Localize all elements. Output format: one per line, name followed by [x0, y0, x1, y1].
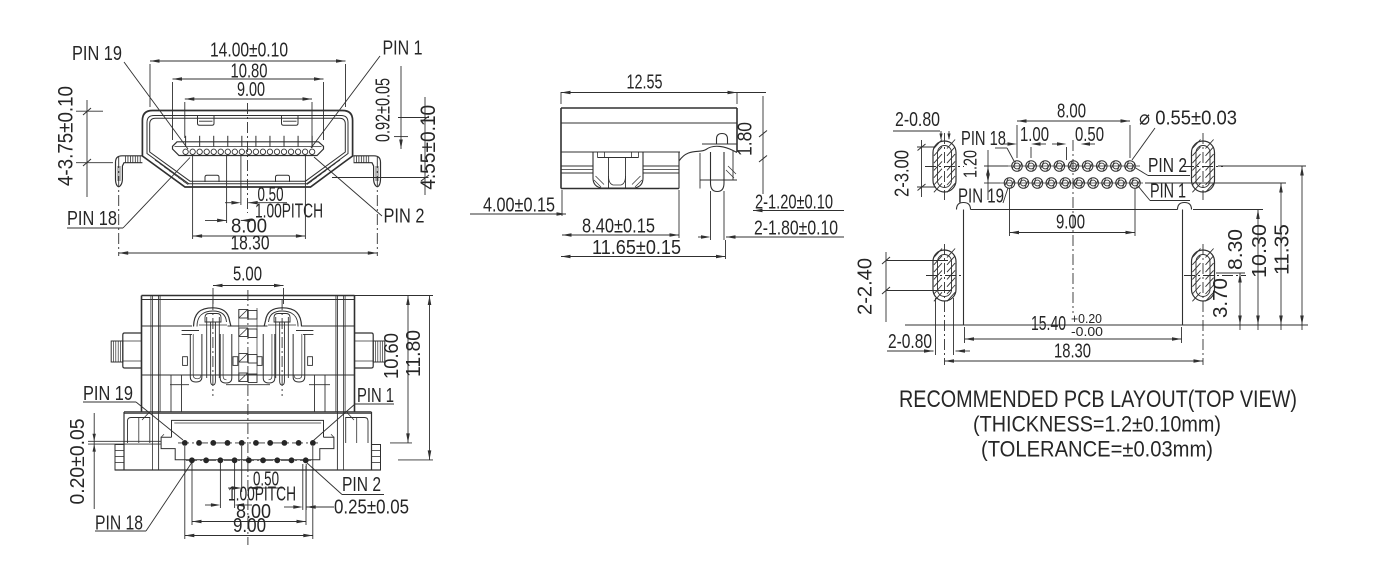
svg-text:12.55: 12.55: [627, 72, 663, 94]
svg-text:2-0.80: 2-0.80: [895, 109, 940, 131]
svg-text:10.60: 10.60: [381, 333, 403, 379]
side view: top latch nub: [717, 134, 728, 145]
svg-text:18.30: 18.30: [1054, 341, 1091, 363]
svg-text:3.70: 3.70: [1210, 278, 1232, 318]
front view: contact tongue: [173, 142, 324, 156]
svg-text:(THICKNESS=1.2±0.10mm): (THICKNESS=1.2±0.10mm): [973, 412, 1221, 437]
bottom view: left EMI tab: [111, 333, 141, 368]
svg-text:0.25±0.05: 0.25±0.05: [334, 497, 409, 519]
svg-text:PIN 19: PIN 19: [958, 186, 1004, 208]
pcb layout: pad row pins 19..1 (10 pads): [1000, 178, 1143, 189]
svg-text:2-1.80±0.10: 2-1.80±0.10: [754, 218, 838, 240]
svg-text:4-3.75±0.10: 4-3.75±0.10: [55, 86, 78, 186]
bottom view: main body outline: [142, 296, 355, 471]
svg-text:PIN 1: PIN 1: [1150, 181, 1186, 203]
front view: upper contact tick marks on tongue: [186, 136, 313, 147]
svg-text:18.30: 18.30: [231, 233, 270, 255]
svg-text:RECOMMENDED PCB LAYOUT(TOP VIE: RECOMMENDED PCB LAYOUT(TOP VIEW): [899, 386, 1297, 413]
svg-text:PIN 2: PIN 2: [1148, 155, 1187, 177]
pcb layout: slot hole upper-right: [1192, 140, 1215, 193]
svg-text:8.40±0.15: 8.40±0.15: [582, 216, 655, 238]
svg-text:PIN 2: PIN 2: [384, 206, 425, 228]
bottom view: flange solder feet ladders: [115, 445, 381, 471]
svg-text:4.00±0.15: 4.00±0.15: [483, 195, 555, 217]
svg-text:14.00±0.10: 14.00±0.10: [210, 40, 288, 62]
svg-text:2-2.40: 2-2.40: [855, 258, 877, 315]
svg-text:(TOLERANCE=±0.03mm): (TOLERANCE=±0.03mm): [981, 437, 1213, 462]
front view: shell wall hatching on lower-left curve: [155, 160, 340, 185]
svg-text:8.30: 8.30: [1225, 229, 1247, 270]
bottom view: right latch spring assembly (mirror): [257, 308, 312, 385]
svg-text:0.20±0.05: 0.20±0.05: [67, 419, 89, 505]
svg-text:10.30: 10.30: [1249, 224, 1271, 278]
svg-text:PIN 18: PIN 18: [961, 128, 1006, 150]
svg-text:9.00: 9.00: [237, 79, 265, 101]
front view: top dimple tabs: [198, 116, 215, 125]
svg-text:PIN 18: PIN 18: [67, 208, 117, 230]
pcb layout: slot hole lower-right: [1192, 249, 1215, 302]
bottom view: flange corner boss right: [346, 418, 368, 444]
side view: SMT foot block: [593, 152, 643, 188]
pcb layout: footprint outline with corner ears: [905, 203, 1308, 326]
svg-text:0.92±0.05: 0.92±0.05: [373, 78, 395, 142]
front view: left mounting leg: [116, 156, 143, 187]
pcb layout: slot hole lower-left: [933, 249, 956, 302]
bottom view: left latch centerline: [212, 299, 214, 396]
svg-text:1.00: 1.00: [1020, 124, 1049, 146]
svg-text:11.80: 11.80: [403, 330, 425, 377]
svg-text:11.35: 11.35: [1272, 224, 1294, 275]
svg-text:1.80: 1.80: [735, 122, 757, 156]
svg-text:2-3.00: 2-3.00: [892, 150, 914, 197]
front view: center line: [247, 103, 249, 213]
bottom view: center interlock zigzag tabs: [239, 308, 257, 383]
bottom view: pin row 1 (pins 19..1) centerline: [178, 442, 318, 444]
bottom view: flange corner boss left: [128, 418, 150, 444]
front view: right mounting leg: [354, 156, 381, 187]
pcb layout: slot hole upper-left: [933, 140, 956, 193]
front view: leg center lines: [118, 157, 120, 256]
bottom view: pin row 1 dots: [182, 440, 316, 446]
svg-text:PIN 1: PIN 1: [383, 38, 423, 60]
svg-text:-0.00: -0.00: [1071, 324, 1103, 339]
bottom view: pin row 2 centerline: [186, 459, 311, 461]
front view: bottom dimple tabs: [205, 175, 219, 182]
bottom view: right latch centerline: [281, 299, 283, 396]
front view: 19 pin-end circles on tongue: [183, 149, 315, 154]
pcb layout: pad row pins 18..2 (9 pads): [1006, 161, 1140, 172]
bottom view: lower flange: [115, 412, 381, 470]
svg-text:1.20: 1.20: [961, 150, 981, 178]
pcb layout: center line vertical: [1072, 140, 1074, 313]
side view: hold-down clip and through-hole peg: [679, 146, 737, 191]
svg-text:15.40: 15.40: [1031, 313, 1066, 335]
bottom view: pin recess stepped outline: [161, 420, 334, 459]
svg-text:9.00: 9.00: [233, 515, 266, 537]
svg-text:PIN 19: PIN 19: [72, 43, 122, 65]
bottom view: pin row 2 dots: [189, 457, 309, 463]
svg-text:5.00: 5.00: [233, 264, 262, 286]
bottom view: left latch spring assembly: [183, 308, 238, 385]
svg-text:8.00: 8.00: [1057, 101, 1086, 123]
front view: outer metal shell outline: [142, 111, 352, 188]
side view: body outline: [561, 108, 737, 189]
bottom view: mating seam centerline: [247, 290, 249, 545]
svg-text:11.65±0.15: 11.65±0.15: [592, 237, 681, 259]
bottom view: right EMI tab: [355, 333, 385, 368]
svg-text:9.00: 9.00: [1056, 212, 1085, 234]
svg-text:⌀ 0.55±0.03: ⌀ 0.55±0.03: [1139, 108, 1237, 130]
svg-text:PIN 2: PIN 2: [342, 474, 381, 496]
